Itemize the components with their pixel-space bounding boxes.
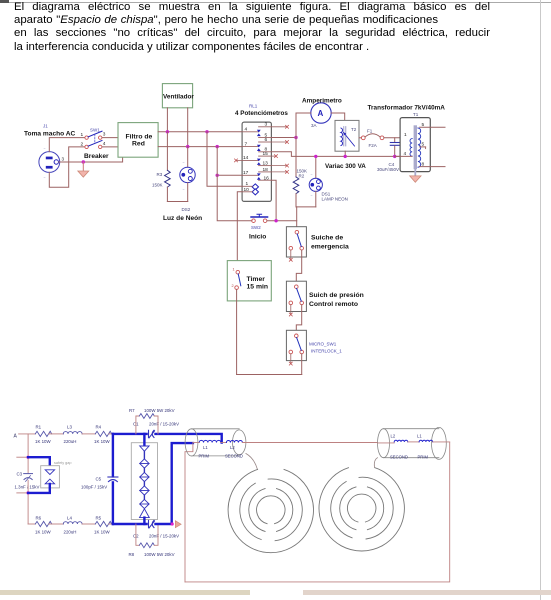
emergency switch box [286, 227, 306, 257]
svg-text:safety gap: safety gap [54, 461, 72, 465]
svg-text:1K 10W: 1K 10W [94, 530, 110, 535]
secondary coil form cylinder 2 [378, 427, 447, 459]
gap electrode pair 3 [140, 472, 149, 481]
wire variac to fuse [359, 137, 362, 139]
svg-text:C3: C3 [17, 472, 23, 477]
stub left of safety gap bottom [17, 492, 28, 494]
svg-text:DS2: DS2 [182, 207, 191, 212]
svg-text:J1: J1 [43, 124, 48, 129]
right spiral coil [319, 468, 404, 551]
stub pin 13 with x terminator [271, 164, 288, 167]
stub pin 14 with x terminator [235, 159, 243, 162]
svg-text:R1: R1 [36, 425, 42, 430]
wire L1 to L2 [221, 442, 227, 444]
svg-text:Breaker: Breaker [84, 153, 109, 160]
svg-text:R2: R2 [299, 174, 305, 179]
gap electrode pair 5 [140, 499, 149, 508]
resistor R4 [95, 431, 111, 436]
relay coil [252, 184, 258, 195]
transformer T1 box [400, 118, 430, 172]
wire top rail left [19, 433, 36, 435]
timer box [227, 261, 271, 301]
wire relay pin 10 down to timer [237, 192, 242, 271]
svg-text:R5: R5 [96, 516, 102, 521]
svg-text:SECOND: SECOND [390, 455, 408, 460]
variac T2 box [335, 120, 359, 151]
svg-text:~: ~ [311, 173, 313, 177]
label Suiche de emergencia [311, 235, 349, 251]
wire pressure to micro switch [296, 305, 301, 334]
spark gap bank box [131, 443, 157, 520]
svg-text:20nF / 15-20kV: 20nF / 15-20kV [149, 534, 179, 539]
wire SW1 pin3 to filtro [102, 137, 118, 139]
stub micro NC with x [289, 354, 292, 365]
capacitor C3 [24, 474, 33, 482]
tank capacitor C5 branch [108, 434, 118, 524]
svg-text:14: 14 [243, 155, 249, 161]
wire relay pin 16 down to SW2 junction [271, 180, 276, 221]
svg-text:Timer: Timer [247, 276, 266, 283]
svg-text:A: A [318, 109, 324, 118]
svg-text:Amperimetro: Amperimetro [302, 98, 342, 105]
timer pin marks [232, 268, 235, 289]
svg-text:15: 15 [263, 151, 269, 157]
wire ammeter right to variac [331, 113, 345, 120]
neon lamp DS2 [180, 147, 195, 202]
T1 core [414, 127, 417, 168]
svg-text:100pF / 15kV: 100pF / 15kV [81, 485, 107, 490]
svg-text:A: A [14, 434, 18, 440]
stub emergency NC with x [289, 250, 292, 261]
resistor R5 [95, 521, 111, 526]
svg-text:Variac 300 VA: Variac 300 VA [325, 163, 366, 170]
T1 mid pin tick [425, 147, 427, 149]
junction safety gap bottom [27, 491, 30, 494]
wire bottom loop R3 DS2 [167, 201, 187, 203]
ground symbol below T1 [410, 176, 421, 182]
safety gap box [41, 466, 60, 488]
left rail lower segment [27, 480, 29, 524]
svg-text:T1: T1 [413, 112, 419, 117]
resistor R1 [35, 431, 51, 436]
T1 primary winding [410, 139, 412, 157]
blue bus bottom rail right [156, 443, 193, 524]
safety gap blue loop top [28, 457, 50, 469]
wire ammeter left [296, 113, 311, 138]
neon lamp DS1 [309, 156, 322, 207]
svg-text:1.3nF / 15kV: 1.3nF / 15kV [15, 485, 40, 490]
relay contact group 1 [242, 127, 271, 138]
svg-text:~: ~ [183, 161, 185, 165]
gap electrode pair 4 [140, 486, 149, 495]
svg-text:R6: R6 [36, 516, 42, 521]
svg-text:30uF/450V: 30uF/450V [377, 167, 399, 172]
resistor R2 [293, 138, 299, 207]
svg-text:Suich de presión: Suich de presión [309, 292, 364, 299]
inductor L2 second view [394, 440, 408, 442]
relay pin numbers right [263, 122, 270, 182]
svg-text:100W 5W 20kV: 100W 5W 20kV [144, 552, 175, 557]
net arrow marker [175, 521, 181, 528]
svg-text:2: 2 [81, 142, 84, 148]
svg-text:Transformador 7kV/40mA: Transformador 7kV/40mA [368, 105, 446, 112]
junction pin5 ammeter [294, 136, 297, 139]
svg-text:R4: R4 [96, 425, 102, 430]
relay pin numbers left [243, 127, 249, 193]
gap bank feed bottom [143, 518, 145, 524]
label Timer 15 min [247, 276, 269, 291]
junction C4 bottom [393, 155, 396, 158]
svg-text:4: 4 [103, 141, 106, 147]
paragraph text [14, 1, 490, 54]
svg-text:~: ~ [44, 147, 46, 151]
svg-text:6: 6 [265, 137, 268, 143]
svg-text:18: 18 [263, 167, 269, 173]
svg-text:R3: R3 [157, 172, 163, 177]
wire J1 bottom loop to SW1 pin2 [49, 147, 84, 187]
bottom tan bar left [0, 590, 250, 595]
capacitor C1 [149, 430, 155, 438]
wire neutral rail from filtro to relay pin 7 [158, 146, 242, 148]
inductor L3 [63, 432, 82, 434]
pin tilde marks [44, 147, 313, 199]
svg-text:220uH: 220uH [64, 439, 77, 444]
svg-text:F1: F1 [367, 129, 373, 134]
relay contact group 4 [242, 172, 271, 180]
svg-text:1K 10W: 1K 10W [35, 530, 51, 535]
svg-text:INTERLOCK_1: INTERLOCK_1 [311, 349, 342, 354]
svg-text:3: 3 [62, 157, 65, 162]
safety gap electrode up [45, 479, 54, 484]
EMI filter box Filtro de Red [118, 123, 158, 158]
bottom tan bar right [303, 590, 551, 595]
wire rail R4 to blue bus [109, 433, 113, 435]
right gray border line [540, 0, 541, 600]
svg-text:3A: 3A [311, 123, 317, 128]
stub pin 15 with x terminator [271, 155, 277, 158]
wire cylinder2 to right spiral [374, 458, 377, 468]
wire rail R1 to L3 [49, 433, 64, 435]
svg-text:7: 7 [245, 141, 248, 147]
svg-text:1: 1 [233, 268, 235, 272]
wire live rail from filtro to relay pin 4 [158, 131, 242, 133]
stub left of safety gap top [17, 456, 28, 458]
blue bus bottom rail [113, 523, 147, 525]
svg-text:SW2: SW2 [251, 225, 261, 230]
top gray border line [0, 2, 551, 3]
stub T1 mid pin [420, 146, 426, 148]
svg-text:SW1: SW1 [90, 128, 100, 133]
svg-text:Toma macho AC: Toma macho AC [24, 131, 76, 138]
junction DS1 top [314, 155, 317, 158]
wire L2 to second cylinder [242, 442, 377, 444]
SW1 pin numbers [81, 132, 106, 148]
gap electrode 1 [140, 446, 149, 451]
svg-text:SECOND: SECOND [225, 454, 243, 459]
micro interlock switch box [286, 330, 306, 360]
relay coil stubs [242, 186, 252, 192]
svg-text:Inicio: Inicio [249, 234, 266, 241]
svg-text:220uH: 220uH [64, 530, 77, 535]
svg-text:Suiche de: Suiche de [311, 235, 343, 242]
junction safety gap top [27, 456, 30, 459]
svg-text:4: 4 [245, 127, 248, 133]
fuse F1 [361, 134, 384, 140]
capacitor C2 [149, 520, 155, 528]
svg-text:1K 10W: 1K 10W [35, 439, 51, 444]
svg-text:4 Potenciómetros: 4 Potenciómetros [235, 110, 288, 117]
wire neutral branch down to SW2 [217, 147, 252, 221]
svg-text:R7: R7 [129, 408, 135, 413]
svg-text:20nF / 15-20kV: 20nF / 15-20kV [149, 422, 179, 427]
wire fan left lead [166, 108, 168, 132]
junction fan left on live rail [166, 130, 169, 133]
svg-text:2: 2 [232, 284, 234, 288]
wire ground return right and bottom [185, 442, 450, 582]
primary coil form cylinder 1 [185, 429, 246, 456]
wire R2 DS1 bottom rail [296, 206, 316, 208]
inductor L2 secondary [226, 441, 242, 443]
svg-text:3: 3 [265, 122, 268, 128]
safety gap blue loop bottom [28, 484, 50, 493]
svg-text:15 min: 15 min [247, 284, 269, 291]
wire into cylinder 2 [378, 442, 395, 444]
wire timer bottom to rail [236, 289, 238, 374]
label Suich de presion [309, 292, 364, 308]
gap electrode pair 2 [140, 459, 149, 468]
capacitor C4 [390, 138, 399, 157]
wire variac bottom [344, 151, 346, 156]
wire relay pin 8 to variac output rail [271, 152, 400, 157]
wire T1 pin4 [395, 155, 412, 157]
resistor R6 [35, 521, 51, 526]
svg-text:LAMP NEON: LAMP NEON [322, 197, 348, 202]
svg-text:L3: L3 [67, 425, 72, 430]
resistor R3 [165, 132, 171, 202]
gap link 3 [143, 482, 145, 486]
wire bottom rail down to SW2 right junction [296, 207, 298, 221]
junction fan right on neutral rail [186, 145, 189, 148]
wire J1 pin3 to ground / filtro [59, 157, 123, 162]
gap link 1 [143, 451, 145, 459]
wire rail L4 to R5 [82, 523, 95, 525]
T1 pin numbers [404, 122, 425, 167]
wire emergency to pressure switch [296, 250, 301, 285]
stub pin 18 with x terminator [271, 170, 288, 173]
svg-text:L2: L2 [391, 434, 396, 439]
junction on bottom bus [171, 522, 174, 525]
svg-text:L1: L1 [203, 445, 208, 450]
wire blue to L1 [193, 442, 199, 444]
inductor L1 second view [419, 440, 433, 442]
svg-text:Luz de Neón: Luz de Neón [163, 215, 202, 222]
svg-text:PRIM: PRIM [199, 454, 210, 459]
svg-text:Red: Red [132, 141, 145, 148]
wire ground return from L1 terminal [185, 443, 193, 582]
svg-text:emergencia: emergencia [311, 244, 349, 251]
left rail upper segment [27, 434, 29, 473]
svg-text:~: ~ [44, 176, 46, 180]
wire T1 pin8 out [420, 166, 445, 168]
gap link 2 [143, 468, 145, 472]
ground symbol at breaker [78, 162, 89, 177]
pressure switch box [286, 281, 306, 311]
svg-text:MICRO_SW1: MICRO_SW1 [309, 342, 337, 347]
wire fuse to T1 pin1 [384, 137, 411, 139]
junction neutral rail at x217 [216, 145, 219, 148]
relay contact group 2 [242, 142, 271, 152]
wire bottom return rail [237, 374, 302, 376]
svg-text:~: ~ [183, 188, 185, 192]
wire bottom rail left [28, 523, 35, 525]
svg-text:L4: L4 [67, 516, 72, 521]
svg-text:1: 1 [81, 132, 84, 138]
T1 secondary winding [418, 128, 421, 167]
stub pin 3 with x terminator [271, 125, 288, 128]
stub pressure NC with x [289, 305, 292, 316]
wire micro to bottom rail [301, 354, 303, 375]
gap electrode 6 up [140, 509, 150, 518]
junction pin17 [216, 174, 219, 177]
junction on live rail [205, 130, 208, 133]
svg-text:L2: L2 [230, 445, 235, 450]
wire T1 pin5 out [420, 126, 445, 128]
relay RL1 box [242, 122, 271, 201]
svg-text:~: ~ [311, 194, 313, 198]
ammeter Amperimetro [311, 103, 331, 123]
svg-text:Control remoto: Control remoto [309, 301, 358, 308]
gap link 4 [143, 495, 145, 499]
wire between coils cylinder 2 [408, 441, 419, 443]
resistor R7 bypass [136, 414, 158, 434]
wire cylinder1 to left spiral [246, 454, 258, 470]
push button SW2 Inicio [251, 214, 268, 222]
svg-text:R8: R8 [129, 552, 135, 557]
wire relay pin 17 to neutral branch [217, 174, 242, 176]
gap bank feed top [143, 434, 145, 446]
wire relay pin 5 to ammeter node [271, 137, 296, 139]
junction variac bottom [344, 155, 347, 158]
svg-text:1: 1 [404, 132, 407, 138]
safety gap electrode down [45, 470, 54, 475]
svg-text:T2: T2 [351, 127, 357, 132]
wire SW1 pin4 to filtro [102, 146, 118, 148]
inductor L4 [63, 522, 82, 524]
svg-text:150K: 150K [152, 183, 163, 188]
wire rail R6 to L4 [49, 523, 64, 525]
wire cylinder 2 to border [433, 441, 450, 443]
inductor L1 primary [199, 440, 221, 442]
wire relay pin 1 up to live rail [207, 132, 242, 187]
wire J1 top to SW1 pin1 [49, 138, 84, 152]
wire rail L3 to R4 [82, 433, 95, 435]
svg-text:Ventilador: Ventilador [163, 94, 194, 101]
relay contact group 3 [242, 156, 271, 166]
svg-text:C5: C5 [96, 477, 102, 482]
resistor R8 bypass [136, 524, 158, 548]
svg-text:RL1: RL1 [249, 104, 258, 109]
svg-text:F2A: F2A [369, 143, 377, 148]
left spiral coil [228, 469, 313, 552]
node junction on pin3 wire [82, 160, 85, 163]
svg-text:100W 5W 20kV: 100W 5W 20kV [144, 408, 175, 413]
junction SW2 right [274, 219, 277, 222]
blue bus top rail [113, 433, 147, 435]
breaker SW1 [85, 131, 102, 148]
svg-text:L1: L1 [417, 434, 422, 439]
svg-text:3: 3 [103, 132, 106, 138]
svg-text:1K 10W: 1K 10W [94, 439, 110, 444]
stub pin 6 with x terminator [271, 141, 288, 144]
svg-text:16: 16 [264, 175, 270, 181]
wire fan right lead [187, 108, 189, 147]
wire rail R5 to blue bus [109, 523, 113, 525]
svg-text:17: 17 [243, 170, 249, 176]
svg-text:13: 13 [263, 161, 269, 167]
svg-text:PRIM: PRIM [418, 455, 429, 460]
wire SW2 right to emergency chain [267, 221, 297, 230]
blue bus top rail right [156, 434, 222, 443]
connector J1 Toma macho AC [39, 152, 60, 173]
fan box Ventilador [162, 84, 194, 108]
